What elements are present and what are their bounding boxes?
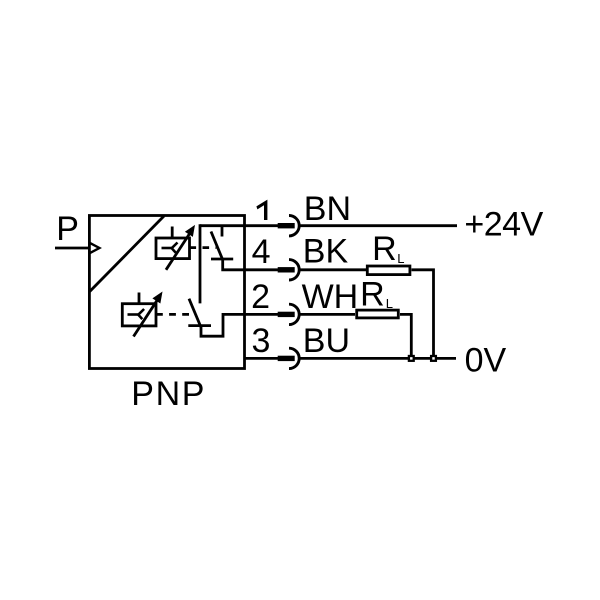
wire BK to resistor R1 — [300, 268, 366, 271]
wire switch S1 output to pin 4 — [223, 259, 278, 270]
threshold element B1 inner line — [162, 247, 173, 250]
svg-text:PNP: PNP — [131, 375, 206, 413]
threshold element B1 adjust arrowhead — [186, 226, 195, 236]
connector pin 2 plug contact — [278, 312, 295, 317]
pressure port arrow wire — [55, 247, 89, 250]
svg-text:BN: BN — [304, 190, 351, 228]
sensor body box U1 — [89, 216, 244, 369]
svg-text:0V: 0V — [465, 341, 507, 379]
svg-text:R: R — [360, 275, 385, 313]
threshold element B1 inner arrowhead — [172, 243, 178, 253]
svg-text:4: 4 — [252, 233, 271, 271]
wire resistor R2 to 0V rail — [400, 314, 411, 358]
wire pin 3 (0V) — [245, 357, 279, 360]
connector pin 3 socket arc — [289, 348, 299, 368]
connector pin 4 socket arc — [289, 260, 299, 280]
threshold element B2 adjust arrowhead — [153, 293, 162, 303]
resistor R1 (load) — [367, 266, 410, 275]
wire BN to +24V — [300, 224, 457, 227]
svg-text:P: P — [56, 210, 79, 248]
connector pin 1 socket arc — [289, 216, 299, 236]
dashed actuation line lower — [156, 313, 196, 316]
connector pin 2 socket arc — [289, 304, 299, 324]
wire switch S2 output to pin 2 — [201, 314, 278, 336]
threshold element B2 inner line — [128, 313, 140, 316]
wire BU to 0V — [300, 357, 456, 360]
wire WH to resistor R2 — [300, 313, 355, 316]
threshold element B2 (lower) body — [122, 304, 156, 326]
wire supply vertical rail — [199, 224, 202, 303]
wire resistor R1 to 0V rail — [412, 270, 434, 359]
switch S1 arm — [211, 232, 223, 260]
connector pin 4 plug contact — [278, 267, 295, 272]
connector pin 3 plug contact — [278, 356, 295, 361]
svg-text:L: L — [397, 251, 404, 266]
svg-text:R: R — [372, 230, 397, 268]
threshold element B2 inner arrowhead — [138, 309, 144, 319]
dashed actuation line upper — [190, 246, 217, 249]
svg-text:WH: WH — [302, 278, 359, 316]
resistor R2 (load) — [357, 310, 399, 318]
svg-text:3: 3 — [252, 322, 271, 360]
diagonal separator inside box — [90, 216, 164, 292]
switch S1 bottom bar — [211, 258, 233, 261]
svg-text:2: 2 — [251, 278, 270, 316]
wire pin1 internal supply — [200, 224, 278, 227]
threshold element B1 (upper) body — [156, 238, 190, 259]
pin number 1 — [256, 200, 267, 220]
threshold element B2 top tick — [138, 293, 141, 304]
junction node at R1/0V — [431, 356, 436, 361]
switch S2 arm — [189, 299, 201, 328]
junction node at R2/0V — [409, 356, 414, 361]
connector pin 1 plug contact — [278, 223, 295, 228]
svg-text:L: L — [386, 296, 393, 311]
svg-text:BK: BK — [303, 232, 349, 270]
threshold element B2 adjust arrow shaft — [134, 300, 158, 336]
svg-text:BU: BU — [303, 322, 350, 360]
threshold element B1 top tick — [171, 227, 174, 239]
threshold element B1 adjust arrow shaft — [166, 234, 190, 270]
pressure port arrowhead — [90, 243, 100, 253]
switch S1 top tick — [221, 226, 224, 237]
svg-text:+24V: +24V — [464, 205, 543, 243]
switch S2 bottom bar — [188, 324, 211, 327]
